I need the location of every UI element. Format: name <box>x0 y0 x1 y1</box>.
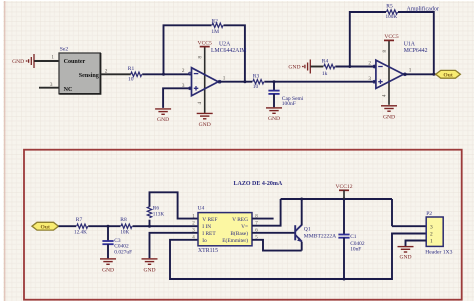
wire V= to VCC12 rail <box>252 199 281 226</box>
svg-text:V=: V= <box>241 224 248 230</box>
svg-text:GND: GND <box>399 255 411 261</box>
svg-text:3: 3 <box>430 224 433 230</box>
svg-text:1k: 1k <box>322 71 328 77</box>
svg-text:U4: U4 <box>198 205 205 211</box>
wire U2A feedback right <box>224 25 245 81</box>
svg-text:VCC5: VCC5 <box>384 34 399 40</box>
wire VCC12 rail <box>281 198 392 200</box>
wire P2 pin1 to GND <box>406 241 427 247</box>
svg-text:1: 1 <box>223 76 226 82</box>
svg-text:3: 3 <box>50 82 53 88</box>
wire rail to P2 pin3 <box>391 199 393 226</box>
svg-text:LAZO DE 4-20mA: LAZO DE 4-20mA <box>234 181 283 187</box>
svg-text:LMC6442AIM: LMC6442AIM <box>211 48 246 54</box>
wire to C3 <box>107 226 109 241</box>
resistor R3 <box>253 80 264 84</box>
svg-text:0.027uF: 0.027uF <box>114 249 132 255</box>
wire port to R7 <box>59 225 77 227</box>
ground GND at U2A pin3 <box>155 109 171 114</box>
svg-text:Io: Io <box>202 238 207 244</box>
svg-text:GND: GND <box>268 116 280 122</box>
wire VCC12 stem <box>343 190 345 199</box>
svg-text:Header 1X3: Header 1X3 <box>425 249 452 255</box>
svg-text:R7: R7 <box>76 217 83 223</box>
ground GND at P2 <box>398 247 414 252</box>
ground GND below U1A <box>381 106 397 111</box>
junction C3 tap <box>107 225 110 228</box>
svg-text:P2: P2 <box>426 211 432 217</box>
svg-text:MCP6442: MCP6442 <box>404 48 428 54</box>
junction C1 top junction <box>343 198 346 201</box>
wire R7 to R8 <box>88 225 120 227</box>
port Out top <box>436 70 461 78</box>
svg-text:1: 1 <box>51 54 54 60</box>
wire U2A feedback left <box>164 25 212 74</box>
junction feedback tap at U2A pin2 <box>162 73 165 76</box>
wire Se2 pin2 stub <box>101 73 131 75</box>
resistor R8 <box>121 224 132 228</box>
wire R3 to U1A pin3 <box>264 81 376 83</box>
wire E to Q1 emitter <box>252 240 302 251</box>
svg-text:R2: R2 <box>211 18 218 24</box>
svg-text:GND: GND <box>143 267 155 273</box>
svg-text:VCC5: VCC5 <box>198 40 213 46</box>
wire R6 to V REF <box>150 192 199 218</box>
svg-text:3: 3 <box>182 83 185 89</box>
svg-text:Sensing: Sensing <box>79 73 99 79</box>
svg-text:R3: R3 <box>253 73 260 79</box>
wire R4 to U1A pin2 <box>335 66 376 68</box>
resistor R6 <box>147 207 151 218</box>
svg-text:2: 2 <box>368 61 371 67</box>
wire Io loop return to P2 pin2 <box>170 234 426 280</box>
svg-text:C1: C1 <box>350 234 357 240</box>
resistor R1 <box>131 72 142 76</box>
svg-text:U1A: U1A <box>404 42 416 48</box>
ground GND below C3 <box>100 259 116 264</box>
svg-text:1M: 1M <box>211 29 219 35</box>
svg-text:12.4K: 12.4K <box>74 230 87 236</box>
connector P2 Header 1X3 <box>426 217 443 246</box>
svg-text:2: 2 <box>182 68 185 74</box>
svg-text:Q1: Q1 <box>304 227 311 233</box>
port Out bottom <box>32 222 59 230</box>
svg-text:113K: 113K <box>153 211 165 217</box>
wire U1A feedback left <box>350 12 386 67</box>
svg-text:Out: Out <box>41 224 50 230</box>
svg-text:3: 3 <box>368 76 371 82</box>
svg-text:NC: NC <box>64 87 73 93</box>
wire R8 to XTR115 pin2 <box>133 225 199 227</box>
junction cap tap <box>273 80 276 83</box>
svg-text:1: 1 <box>409 67 412 73</box>
svg-text:V REG: V REG <box>232 217 248 223</box>
svg-text:GND: GND <box>102 267 114 273</box>
svg-text:100nF: 100nF <box>282 101 296 107</box>
op-amp U1A <box>376 60 404 88</box>
wire GND to U2A pin3 <box>163 88 191 108</box>
wire Se2 pin3 stub <box>39 87 59 89</box>
power port VCC5 at U2A <box>200 46 210 48</box>
wire Cap Semi to GND <box>273 94 275 107</box>
wire I RET to GND <box>150 233 199 258</box>
wire power stem U2A <box>204 47 206 113</box>
svg-text:10: 10 <box>128 77 134 83</box>
junction C1 rail junction <box>343 278 346 281</box>
wire GND to R4 <box>311 66 324 68</box>
wire V REG stub <box>252 218 274 220</box>
svg-text:GND: GND <box>199 122 211 128</box>
junction R6 tap <box>148 225 151 228</box>
wire GND to Se2 pin1 <box>34 60 59 62</box>
capacitor Cap Semi 100nF <box>268 91 279 94</box>
svg-text:B(Base): B(Base) <box>230 230 248 237</box>
svg-text:Amplificador: Amplificador <box>407 5 439 12</box>
capacitor C1 <box>338 235 349 238</box>
wire Q1 collector <box>301 199 303 225</box>
op-amp U2A <box>192 68 219 96</box>
svg-text:100K: 100K <box>386 14 398 20</box>
ground GND below Cap Semi <box>266 108 282 113</box>
svg-text:V REF: V REF <box>202 217 217 223</box>
svg-text:I RET: I RET <box>202 231 216 237</box>
svg-text:U2A: U2A <box>219 41 231 47</box>
wire U1A out to port <box>404 73 436 75</box>
wire rail to C1 <box>343 199 345 235</box>
junction feedback tap at U1A out <box>432 73 435 76</box>
wire C3 to GND <box>107 244 109 258</box>
wire to P2 pin3 <box>392 225 426 227</box>
sensor Se2 <box>59 53 100 94</box>
wire C1 to loop rail <box>343 238 345 279</box>
power port VCC12 <box>339 189 349 191</box>
svg-text:10: 10 <box>253 84 259 90</box>
svg-text:VCC12: VCC12 <box>335 184 352 190</box>
wire Q1 emitter <box>301 242 303 251</box>
resistor R7 <box>77 224 88 228</box>
svg-text:XTR115: XTR115 <box>198 248 218 254</box>
svg-text:R1: R1 <box>128 66 135 72</box>
svg-text:2: 2 <box>430 232 433 238</box>
svg-text:MMBT2222A: MMBT2222A <box>304 233 336 239</box>
svg-text:R4: R4 <box>322 58 329 64</box>
power port VCC5 at U1A <box>384 39 394 41</box>
wire B to Q1 base <box>252 232 295 234</box>
svg-text:10nF: 10nF <box>350 246 361 252</box>
svg-text:Out: Out <box>443 72 452 78</box>
wire U1A feedback right <box>398 12 434 74</box>
wire R1 to U2A pin2 <box>142 73 191 75</box>
svg-text:2: 2 <box>105 69 108 75</box>
svg-text:Counter: Counter <box>64 59 86 65</box>
junction Q1 collector junction <box>300 198 303 201</box>
ground GND below U2A <box>197 113 213 118</box>
section box LAZO DE 4-20mA <box>24 150 462 300</box>
resistor R5 <box>387 10 398 14</box>
IC U4 XTR115 <box>198 213 252 246</box>
junction feedback tap at U2A out <box>243 80 246 83</box>
svg-text:10K: 10K <box>120 230 129 236</box>
svg-text:R8: R8 <box>120 217 127 223</box>
svg-text:I IN: I IN <box>202 224 211 230</box>
svg-text:GND: GND <box>12 59 24 65</box>
svg-text:GND: GND <box>288 65 300 71</box>
resistor R4 <box>324 64 335 68</box>
svg-text:E(Emmiter): E(Emmiter) <box>222 237 248 244</box>
junction feedback tap at U1A pin2 <box>348 65 351 68</box>
svg-text:R5: R5 <box>386 4 393 10</box>
wire U2A out to R3 <box>218 81 252 83</box>
svg-text:1: 1 <box>430 239 433 245</box>
wire R6 bottom lead <box>149 220 151 227</box>
svg-text:GND: GND <box>383 115 395 121</box>
ground GND below I RET <box>142 259 158 264</box>
resistor R2 <box>212 23 223 27</box>
wire to Cap Semi <box>273 82 275 91</box>
wire power stem U1A <box>388 40 390 104</box>
svg-text:GND: GND <box>157 117 169 123</box>
capacitor C3 <box>102 241 113 244</box>
svg-text:Se2: Se2 <box>60 47 69 53</box>
transistor Q1 MMBT2222A <box>294 225 296 240</box>
